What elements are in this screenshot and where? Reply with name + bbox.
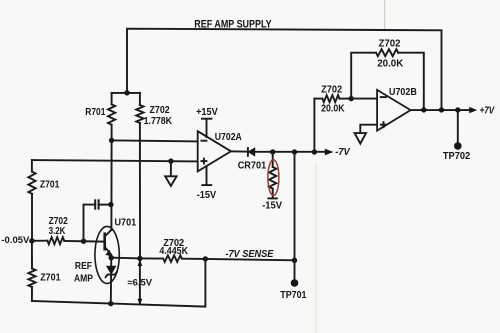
node: feedback junction <box>421 107 426 112</box>
resistor Z702 20.0K (input) <box>314 95 351 102</box>
wire: Z702 bottom to emitter node <box>139 123 141 258</box>
svg-text:-7V SENSE: -7V SENSE <box>225 249 273 260</box>
svg-text:U702B: U702B <box>389 86 417 98</box>
svg-text:U701: U701 <box>115 217 137 229</box>
artifact: faint fold line bottom <box>315 163 317 333</box>
svg-text:4.445K: 4.445K <box>159 245 188 257</box>
node: feedback tap <box>349 96 354 101</box>
transistor U701 emitter <box>105 247 112 258</box>
svg-text:U702A: U702A <box>215 131 242 143</box>
wire: to TP702 <box>457 110 459 146</box>
test point TP702 <box>454 142 462 150</box>
transistor U701 with zener (envelope) <box>95 226 119 283</box>
node: divider top junction <box>124 90 129 95</box>
svg-text:Z702: Z702 <box>379 37 401 49</box>
svg-text:1.778K: 1.778K <box>144 115 173 127</box>
node: sense/TP701 junction <box>292 258 297 263</box>
wire: resistor pair top bar <box>112 92 140 94</box>
node: emitter junction <box>109 255 114 260</box>
node: circled resistor junction <box>270 149 275 154</box>
wire: left rail middle <box>31 194 33 241</box>
svg-text:≈6.5V: ≈6.5V <box>128 276 153 287</box>
node: -7V sense riser junction <box>292 149 297 154</box>
wire: -7V rail <box>255 151 326 153</box>
resistor Z701 (upper) <box>28 172 35 194</box>
wire: left rail to bottom rail <box>31 287 33 301</box>
wire: left rail <box>31 160 33 172</box>
svg-text:REF: REF <box>75 260 93 272</box>
svg-text:-0.05V: -0.05V <box>1 235 29 245</box>
resistor Z702 4.445K <box>140 255 206 262</box>
svg-text:Z702: Z702 <box>321 84 342 96</box>
node: -0.05V input node <box>29 238 34 243</box>
svg-text:20.0K: 20.0K <box>321 102 345 114</box>
+15V supply terminal (U702A) <box>202 119 212 137</box>
resistor R701 <box>108 93 115 140</box>
svg-text:AMP: AMP <box>74 273 93 285</box>
node: Z702 1.778K / emitter wire junction <box>137 256 142 261</box>
diode CR701 <box>231 148 255 156</box>
transistor U701 base bar <box>103 234 106 250</box>
svg-text:REF AMP SUPPLY: REF AMP SUPPLY <box>194 18 272 30</box>
svg-text:+15V: +15V <box>196 106 218 118</box>
svg-text:Z701: Z701 <box>40 272 61 284</box>
node: TP702 junction <box>455 107 460 112</box>
svg-text:-15V: -15V <box>197 189 217 201</box>
ground (U702B non-inverting input) <box>355 125 378 144</box>
test point TP701 <box>291 279 299 287</box>
wire: U702B output to +7V <box>411 109 470 111</box>
node: U702A inverting input junction <box>109 138 114 143</box>
zener diode (inside U701) <box>106 258 117 304</box>
+7V output arrow <box>469 107 477 113</box>
-7V output arrow <box>325 149 334 155</box>
op-amp U702A <box>198 131 231 171</box>
svg-text:CR701: CR701 <box>238 159 267 171</box>
resistor (selected, to -15V) <box>268 152 276 199</box>
artifact: faint fold line top <box>384 0 386 29</box>
wire: -7V rail to sense node <box>294 152 296 260</box>
svg-text:TP702: TP702 <box>443 151 471 162</box>
transistor U701 collector <box>105 230 112 237</box>
wire: to U702B inverting input <box>351 98 377 100</box>
resistor Z701 (lower) <box>28 269 35 288</box>
wire: to U702A inverting input <box>112 140 198 141</box>
svg-text:20.0K: 20.0K <box>377 58 403 70</box>
svg-text:+7V: +7V <box>480 105 496 116</box>
wire: left rail lower <box>31 241 33 269</box>
wire: REF AMP SUPPLY top rail <box>127 29 442 110</box>
svg-text:R701: R701 <box>85 106 105 118</box>
node: U702B input riser junction <box>312 149 317 154</box>
node: base / capacitor junction <box>81 239 86 244</box>
node: supply rail junction <box>439 107 444 112</box>
svg-text:3.2K: 3.2K <box>49 225 66 237</box>
node: ground stub junction <box>168 158 173 163</box>
svg-text:Z701: Z701 <box>40 179 60 191</box>
annotation: red selection ellipse <box>268 160 279 196</box>
capacitor (base-collector compensation) <box>84 200 112 241</box>
node: bottom rail riser junction <box>203 256 208 261</box>
node: capacitor / collector junction <box>108 202 113 207</box>
wire: rail riser to U702B input <box>313 99 315 152</box>
wire: bottom rail <box>32 259 206 307</box>
wire: R701 node down to Q701 collector <box>110 140 112 230</box>
resistor Z702 3.2K <box>32 237 104 244</box>
resistor Z702 1.778K <box>136 93 143 123</box>
svg-text:-7V: -7V <box>335 147 351 158</box>
resistor Z702 20.0K (feedback) <box>351 49 424 110</box>
wire: -7V SENSE <box>205 259 294 260</box>
svg-text:-15V: -15V <box>262 200 282 212</box>
ground (U702A non-inverting input) <box>165 161 176 186</box>
wire: left rail top to U702A non-inverting input <box>32 160 198 161</box>
op-amp U702B <box>377 90 411 131</box>
wire: to TP701 <box>294 260 296 283</box>
-15V supply terminal (U702A) <box>202 166 211 185</box>
wire: emitter to Z702 4.445K <box>111 257 140 260</box>
svg-text:TP701: TP701 <box>280 290 306 301</box>
node: zener to bottom rail <box>108 301 113 306</box>
annotation: ~6.5V measure arrow <box>138 260 143 306</box>
